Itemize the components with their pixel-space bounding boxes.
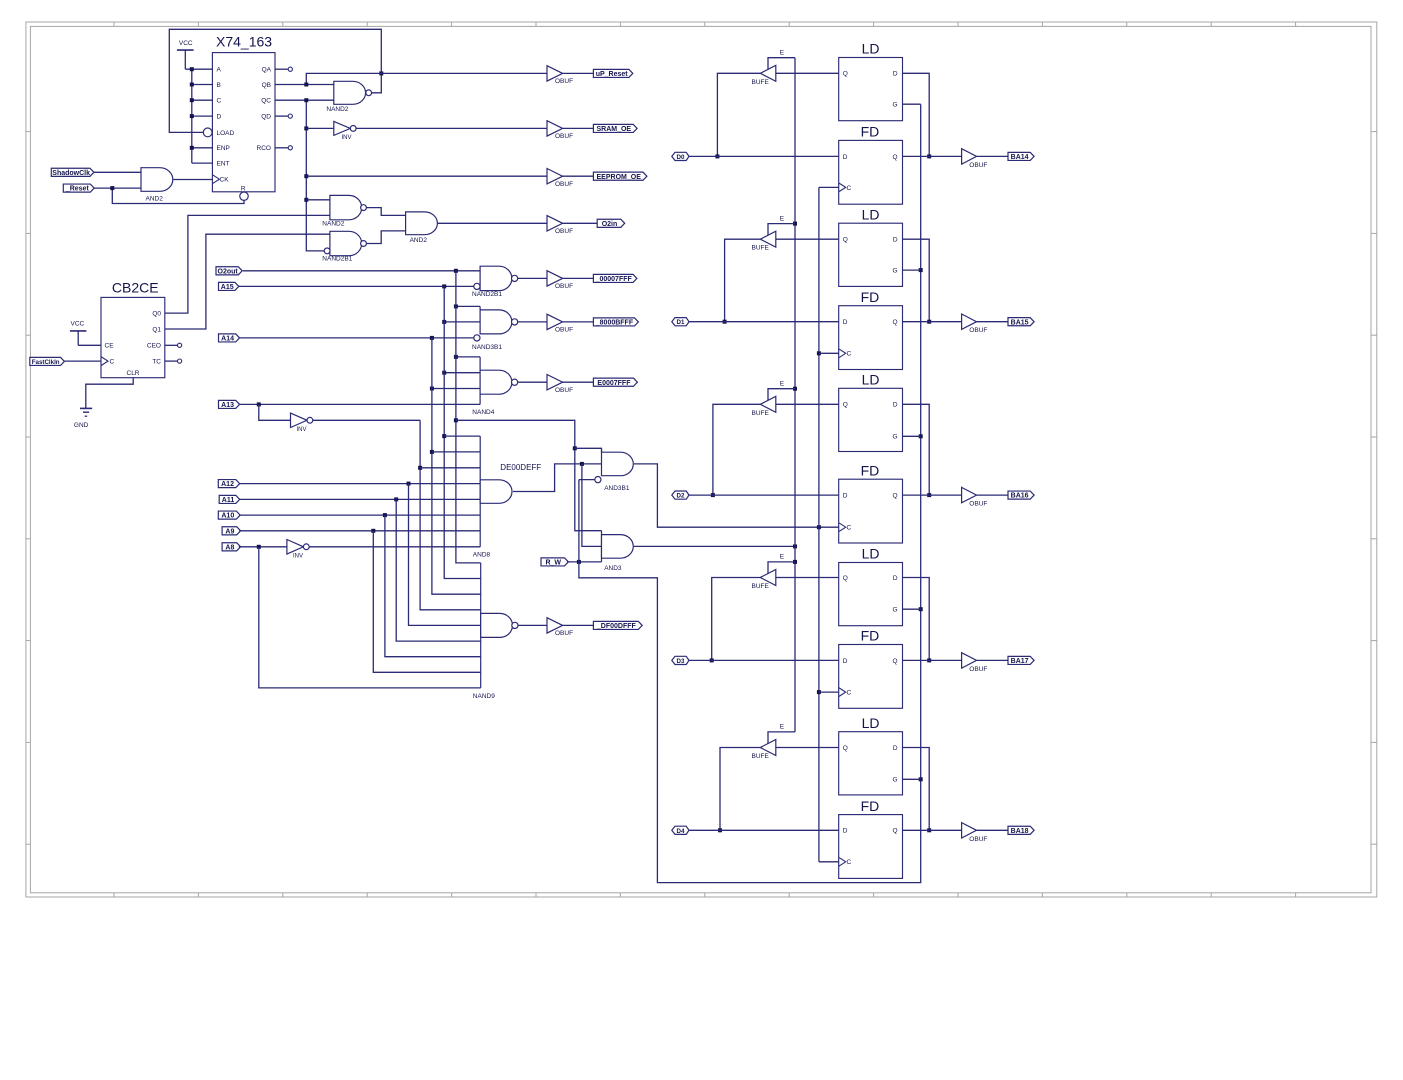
wire R_W to AND3B1 bubble input xyxy=(579,479,595,481)
junction dot BUFE 1 output xyxy=(715,154,719,158)
svg-text:Q: Q xyxy=(893,828,898,835)
OBUF uP_Reset xyxy=(547,66,563,81)
X74_163 counter block U1 xyxy=(212,53,275,192)
wire A13 to NAND4 input4 xyxy=(240,403,481,405)
NAND4 gate address decode xyxy=(480,357,518,405)
svg-text:QC: QC xyxy=(261,98,271,105)
LD latch 2 pin labels xyxy=(843,237,898,275)
junction dot Reset branch xyxy=(110,186,114,190)
svg-text:FD: FD xyxy=(861,798,880,814)
svg-text:uP_Reset: uP_Reset xyxy=(596,71,629,78)
wire D0 to FD1 D xyxy=(689,155,839,157)
input bus vertical A-B-C-D-ENP-ENT xyxy=(191,69,193,163)
wire O2out bus to NAND4 input1 xyxy=(456,356,480,358)
svg-text:NAND3B1: NAND3B1 xyxy=(472,344,502,351)
svg-text:X74_163: X74_163 xyxy=(216,34,272,50)
BUFE enable vertical chain xyxy=(794,58,796,732)
junction dot A13 branch xyxy=(257,402,261,406)
junction dot O2out to AND3B1 input1 xyxy=(573,446,577,450)
svg-text:AND3: AND3 xyxy=(604,565,622,572)
wire LD5 D feedback xyxy=(903,748,930,831)
input flag _Reset xyxy=(63,184,94,192)
input flag D1 xyxy=(672,318,689,326)
svg-text:A15: A15 xyxy=(221,284,234,291)
output flag uP_Reset xyxy=(593,69,632,77)
svg-text:OBUF: OBUF xyxy=(969,666,987,673)
wire LD4 D feedback xyxy=(903,578,930,661)
svg-text:D: D xyxy=(217,114,222,121)
output flag _DF00DFFF xyxy=(593,621,642,629)
wire A8 bus to NAND9 input9 xyxy=(259,547,481,688)
svg-text:BUFE: BUFE xyxy=(752,410,770,417)
junction dot A12 branch xyxy=(407,482,411,486)
junction dot LD1 D feedback xyxy=(927,154,931,158)
wire LD1 Q to BUFE xyxy=(776,72,839,74)
junction dot BUFE 4 output xyxy=(710,658,714,662)
AND3 gate xyxy=(602,531,634,562)
CB2CE pin labels xyxy=(105,311,162,378)
wire A11 bus to NAND9 input6 xyxy=(396,499,481,641)
input flag A10 xyxy=(218,511,240,519)
junction dots enable chain xyxy=(793,222,797,564)
svg-text:E: E xyxy=(780,724,785,731)
NAND9 gate xyxy=(481,563,518,688)
sheet frame inner border xyxy=(30,26,1371,892)
CB2CE counter block U2 xyxy=(101,297,165,377)
svg-text:D: D xyxy=(893,402,898,409)
svg-text:BA14: BA14 xyxy=(1011,154,1029,161)
wire BUFE 4 output to D3 row xyxy=(712,578,761,661)
input flag A9 xyxy=(222,527,241,535)
junction dot LD5 D feedback xyxy=(927,828,931,832)
wire QB to NAND2 xyxy=(275,84,334,86)
wire A14 bus to AND8 input2 xyxy=(432,451,480,453)
FD 3 pin labels xyxy=(843,493,898,532)
wire LD2 G to gate chain xyxy=(903,269,921,271)
LD latch block 2 xyxy=(839,223,903,286)
svg-text:Q: Q xyxy=(893,493,898,500)
svg-text:OBUF: OBUF xyxy=(555,133,573,140)
junction dots on input bus xyxy=(190,67,194,150)
wire INV to OBUF SRAM_OE xyxy=(356,127,547,129)
wire clock chain to FD5 C xyxy=(819,861,839,863)
wire LD4 Q to BUFE xyxy=(776,577,839,579)
wire O2out branch to AND3B1 and AND3 xyxy=(456,420,602,530)
svg-text:Q: Q xyxy=(843,71,848,78)
unconnected pin QD xyxy=(275,114,292,118)
svg-text:ENT: ENT xyxy=(217,161,230,168)
AND3B1 gate xyxy=(595,452,633,483)
svg-text:NAND2: NAND2 xyxy=(322,221,344,228)
BUFE 5 enable pin xyxy=(768,732,795,744)
wire AND8 out branch to AND3 input2 xyxy=(582,464,602,547)
junction dot clock chain xyxy=(817,525,821,529)
svg-text:D: D xyxy=(843,493,848,500)
svg-text:OBUF: OBUF xyxy=(555,630,573,637)
svg-text:D: D xyxy=(843,319,848,326)
svg-text:BA17: BA17 xyxy=(1011,658,1029,665)
svg-text:AND2: AND2 xyxy=(146,195,164,202)
output flag E0007FFF xyxy=(593,378,637,386)
svg-text:INV: INV xyxy=(342,135,352,141)
svg-text:FastClkIn: FastClkIn xyxy=(32,359,60,366)
pin stubs B C D ENP ENT xyxy=(192,85,213,164)
svg-text:O2out: O2out xyxy=(218,268,239,275)
svg-text:NAND9: NAND9 xyxy=(473,693,495,700)
svg-text:Q: Q xyxy=(843,575,848,582)
junction dot LD3 D feedback xyxy=(927,493,931,497)
BUFE tristate buffer 4 xyxy=(760,570,776,586)
unconnected pin TC xyxy=(165,359,182,363)
svg-text:C: C xyxy=(847,351,852,358)
NAND2 gate middle xyxy=(330,195,362,219)
svg-text:OBUF: OBUF xyxy=(555,228,573,235)
svg-text:Q: Q xyxy=(893,154,898,161)
svg-text:AND2: AND2 xyxy=(410,237,428,244)
svg-text:LD: LD xyxy=(862,372,880,388)
svg-text:D3: D3 xyxy=(677,658,685,665)
svg-text:OBUF: OBUF xyxy=(555,327,573,334)
input flag A11 xyxy=(219,495,240,503)
wire AND2 output to CK xyxy=(173,179,212,181)
BUFE 4 enable pin xyxy=(768,562,795,574)
wire NAND2B1 to OBUF xyxy=(518,277,547,279)
LD latch block 3 xyxy=(839,388,903,451)
LD latch block 5 xyxy=(839,732,903,795)
wire OBUF to _8000BFFF flag xyxy=(563,321,594,323)
FD 2 pin labels xyxy=(843,319,898,358)
OBUF E0007FFF xyxy=(547,375,563,390)
wire O2out to NAND2B1 xyxy=(243,270,480,272)
output flag SRAM_OE xyxy=(593,124,637,132)
svg-text:G: G xyxy=(893,268,898,275)
wire QC bus to OBUF EEPROM_OE xyxy=(306,175,547,177)
wire OBUF to BA17 flag xyxy=(977,659,1009,661)
svg-text:C: C xyxy=(847,525,852,532)
output flag O2in xyxy=(597,219,625,227)
OBUF BA16 xyxy=(962,487,977,502)
wire AND3 output to BUFE enable chain xyxy=(634,545,795,547)
wire R_W to AND3 input3 xyxy=(567,561,602,563)
BUFE tristate buffer 1 xyxy=(760,65,776,81)
GND ground symbol xyxy=(74,408,92,429)
svg-text:Q0: Q0 xyxy=(152,311,161,318)
wire D1 to FD2 D xyxy=(689,321,839,323)
svg-text:G: G xyxy=(893,607,898,614)
wire OBUF to O2in flag xyxy=(563,222,598,224)
input flag D2 xyxy=(672,491,689,499)
QC vertical bus xyxy=(306,100,324,251)
wire A8 to INV xyxy=(239,546,287,548)
input flag A13 xyxy=(219,400,240,408)
svg-text:ShadowClk: ShadowClk xyxy=(52,170,90,177)
wire QB riser to uP_Reset buffer xyxy=(306,73,547,84)
wire QC bus to NAND2 middle input1 xyxy=(306,199,330,201)
wire FD5 Q to OBUF xyxy=(903,829,962,831)
svg-text:CLR: CLR xyxy=(127,370,140,377)
wire A9 to AND8 input7 xyxy=(239,530,480,532)
FD 3 clock wedge xyxy=(839,523,846,532)
input flag A8 xyxy=(222,543,241,551)
wire NAND3B1 to OBUF xyxy=(518,321,547,323)
svg-text:OBUF: OBUF xyxy=(969,836,987,843)
AND8 gate xyxy=(480,436,512,547)
wire D4 to FD5 D xyxy=(689,829,839,831)
NAND2B1 gate address decode xyxy=(480,266,512,290)
wire LD3 Q to BUFE xyxy=(776,403,839,405)
svg-text:C: C xyxy=(110,359,115,366)
svg-text:QB: QB xyxy=(262,82,271,89)
wire LD2 Q to BUFE xyxy=(776,238,839,240)
wire LD5 Q to BUFE xyxy=(776,747,839,749)
wire A9 bus to NAND9 input8 xyxy=(373,531,480,673)
svg-text:BA18: BA18 xyxy=(1011,828,1029,835)
svg-text:R: R xyxy=(241,185,246,192)
svg-text:TC: TC xyxy=(152,359,161,366)
FD flip-flop block 3 xyxy=(839,479,903,543)
wire A11 to AND8 input5 xyxy=(240,498,481,500)
output flag BA14 xyxy=(1008,152,1034,160)
svg-text:BUFE: BUFE xyxy=(752,79,770,86)
junction dot A10 branch xyxy=(383,513,387,517)
wire NAND2 middle output to AND2 xyxy=(366,208,405,216)
svg-text:D: D xyxy=(843,658,848,665)
BUFE tristate buffer 3 xyxy=(760,396,776,412)
junction dot A14 bus start xyxy=(430,336,434,340)
wire NAND4 to OBUF xyxy=(518,381,547,383)
NAND2B1 gate middle xyxy=(330,231,362,255)
wire AND2 to OBUF O2in xyxy=(437,222,547,224)
wire FD4 Q to OBUF xyxy=(903,659,962,661)
svg-text:GND: GND xyxy=(74,422,89,429)
INV gate A13 xyxy=(291,413,308,427)
svg-text:SRAM_OE: SRAM_OE xyxy=(596,126,631,133)
wire LD5 G to gate chain xyxy=(903,778,921,780)
BUFE tristate buffer 5 xyxy=(760,740,776,756)
OBUF SRAM_OE xyxy=(547,121,563,136)
input flag ShadowClk xyxy=(51,168,94,176)
svg-text:Q: Q xyxy=(843,402,848,409)
svg-text:LD: LD xyxy=(862,206,880,222)
X74_163 pin labels left xyxy=(217,67,235,184)
svg-text:NAND4: NAND4 xyxy=(472,409,494,416)
wire A10 to AND8 input6 xyxy=(239,514,480,516)
junction dot R_W branch xyxy=(577,560,581,564)
svg-text:G: G xyxy=(893,434,898,441)
svg-text:OBUF: OBUF xyxy=(969,501,987,508)
input flag R_W xyxy=(541,558,568,566)
wire OBUF to EEPROM_OE flag xyxy=(563,175,594,177)
X74_163 CK clock wedge xyxy=(212,175,219,184)
junction dot BUFE 2 output xyxy=(723,320,727,324)
input flag D4 xyxy=(672,826,689,834)
wire clock chain to FD2 C xyxy=(819,352,839,354)
junction dot inverted A13 to AND8 xyxy=(418,466,422,470)
wire LD3 D feedback xyxy=(903,404,930,495)
svg-text:C: C xyxy=(847,690,852,697)
svg-text:CB2CE: CB2CE xyxy=(112,280,159,296)
svg-text:A11: A11 xyxy=(222,497,235,504)
svg-text:RCO: RCO xyxy=(257,145,271,152)
svg-text:D: D xyxy=(893,237,898,244)
svg-text:_00007FFF: _00007FFF xyxy=(595,276,633,283)
A15 vertical bus xyxy=(444,286,481,578)
svg-text:BUFE: BUFE xyxy=(752,245,770,252)
wire NAND2B1 middle output to AND2 xyxy=(366,231,405,244)
frame zone ticks top and bottom xyxy=(114,22,1296,897)
wire A15 bus to AND8 input1 xyxy=(444,435,480,437)
wire clock chain to FD1 C xyxy=(819,186,839,188)
LD latch 1 pin labels xyxy=(843,71,898,109)
svg-text:DE00DEFF: DE00DEFF xyxy=(500,463,541,472)
LD latch block 1 xyxy=(839,58,903,121)
VCC power symbol for X74_163 xyxy=(177,40,194,69)
CB2CE C clock wedge xyxy=(101,357,108,366)
svg-text:A14: A14 xyxy=(221,336,234,343)
X74_163 pin labels right xyxy=(257,67,272,153)
svg-text:E: E xyxy=(780,215,785,222)
LD latch 5 pin labels xyxy=(843,745,898,784)
LD latch 4 pin labels xyxy=(843,575,898,614)
wire D2 to FD3 D xyxy=(689,494,839,496)
wire BUFE 3 output to D2 row xyxy=(713,404,760,495)
wire Q1 to NAND2B1 middle input1 xyxy=(165,234,330,329)
wire A14 bus to NAND4 input3 xyxy=(432,388,480,390)
svg-text:E: E xyxy=(780,380,785,387)
wire CLR to GND xyxy=(86,378,133,409)
junction dot O2out branch row xyxy=(454,418,458,422)
svg-text:D0: D0 xyxy=(677,154,685,161)
svg-text:LD: LD xyxy=(862,41,880,57)
wire FD1 Q to OBUF xyxy=(903,155,962,157)
output flag BA18 xyxy=(1008,826,1034,834)
svg-text:Q: Q xyxy=(893,658,898,665)
wire clock chain to FD4 C xyxy=(819,691,839,693)
svg-text:EEPROM_OE: EEPROM_OE xyxy=(597,174,642,181)
svg-text:BUFE: BUFE xyxy=(752,583,770,590)
wire AND8 output to AND3B1 input2 xyxy=(513,464,602,492)
NAND2 gate top xyxy=(334,81,366,104)
svg-text:QD: QD xyxy=(261,114,271,121)
input flag FastClkIn xyxy=(30,357,65,365)
svg-text:A9: A9 xyxy=(225,528,234,535)
output flag BA15 xyxy=(1008,318,1034,326)
wire BUFE 1 output to D0 row xyxy=(717,73,760,156)
svg-text:D: D xyxy=(843,828,848,835)
svg-text:D: D xyxy=(893,71,898,78)
X74_163 R pin bubble xyxy=(240,192,248,200)
svg-text:C: C xyxy=(217,98,222,105)
output flag BA16 xyxy=(1008,491,1034,499)
FD flip-flop block 5 xyxy=(839,815,903,879)
svg-text:NAND2B1: NAND2B1 xyxy=(472,291,502,298)
junction dot LD4 D feedback xyxy=(927,658,931,662)
svg-text:BA16: BA16 xyxy=(1011,493,1029,500)
svg-text:A: A xyxy=(217,67,222,74)
svg-text:E: E xyxy=(780,554,785,561)
wire R_W to latch gate chain xyxy=(579,104,921,882)
svg-text:FD: FD xyxy=(861,462,880,478)
wire BUFE 5 output to D4 row xyxy=(720,748,760,831)
A14 vertical bus xyxy=(432,338,481,594)
svg-text:BUFE: BUFE xyxy=(752,753,770,760)
frame zone ticks left and right xyxy=(26,132,1377,845)
junction dot LD2 D feedback xyxy=(927,320,931,324)
NAND2B1 middle input bubble xyxy=(324,248,330,254)
svg-text:CEO: CEO xyxy=(147,343,161,350)
output flag _8000BFFF xyxy=(593,318,638,326)
AND2 gate O2in xyxy=(406,212,438,235)
wire NAND9 to OBUF xyxy=(518,624,547,626)
svg-text:LOAD: LOAD xyxy=(217,130,235,137)
wire NAND2 output loop to LOAD xyxy=(169,29,381,132)
svg-text:LD: LD xyxy=(862,715,880,731)
wire LD4 G to gate chain xyxy=(903,608,921,610)
wire _Reset to AND2 xyxy=(94,187,141,189)
svg-text:C: C xyxy=(847,859,852,866)
junction dot BUFE 5 output xyxy=(718,828,722,832)
svg-text:NAND2: NAND2 xyxy=(326,106,348,113)
svg-text:OBUF: OBUF xyxy=(969,327,987,334)
wire OBUF to uP_Reset flag xyxy=(563,72,594,74)
wire QC bus to INV xyxy=(306,127,334,129)
unconnected pin CEO xyxy=(165,343,182,347)
svg-text:D2: D2 xyxy=(677,493,685,500)
wire QC to NAND2 xyxy=(275,99,334,101)
output flag BA17 xyxy=(1008,656,1034,664)
wire A15 bus to NAND3B1 input2 xyxy=(444,321,480,323)
wire INV A8 to AND8 input8 xyxy=(309,546,480,548)
FD 1 clock wedge xyxy=(839,183,846,192)
svg-text:G: G xyxy=(893,102,898,109)
inverted A13 vertical bus xyxy=(420,420,481,610)
wire A15 to NAND2B1 bubble xyxy=(239,285,474,287)
unconnected pin RCO xyxy=(275,146,292,150)
wire VCC to pin A xyxy=(185,68,212,70)
svg-text:FD: FD xyxy=(861,628,880,644)
svg-text:OBUF: OBUF xyxy=(969,162,987,169)
OBUF O2in xyxy=(547,216,563,231)
BUFE tristate buffer 2 xyxy=(760,231,776,247)
INV gate SRAM_OE xyxy=(334,121,351,135)
svg-text:AND3B1: AND3B1 xyxy=(604,485,630,492)
BUFE 3 enable pin xyxy=(768,389,795,401)
wire OBUF to BA18 flag xyxy=(977,829,1009,831)
junction dots clock chain verticals xyxy=(817,351,821,694)
svg-text:A13: A13 xyxy=(221,402,234,409)
svg-text:Q: Q xyxy=(843,237,848,244)
svg-text:INV: INV xyxy=(297,427,307,433)
junction dot NAND2 output at uP_Reset row xyxy=(379,71,383,75)
wire OBUF to SRAM_OE flag xyxy=(563,127,594,129)
wire OBUF to E0007FFF flag xyxy=(563,381,594,383)
output flag _00007FFF xyxy=(593,274,637,282)
svg-text:VCC: VCC xyxy=(71,321,85,328)
svg-text:A12: A12 xyxy=(221,481,234,488)
svg-text:E0007FFF: E0007FFF xyxy=(597,380,631,387)
FD 4 clock wedge xyxy=(839,688,846,697)
svg-text:R_W: R_W xyxy=(545,560,561,567)
OBUF BA14 xyxy=(962,149,977,164)
svg-text:D: D xyxy=(893,575,898,582)
input flag O2out xyxy=(216,267,242,275)
LD latch block 4 xyxy=(839,563,903,626)
svg-text:NAND2B1: NAND2B1 xyxy=(322,256,352,263)
wire A15 bus to NAND4 input2 xyxy=(444,372,480,374)
wire A13 to INV xyxy=(259,404,291,420)
wire O2out branch to AND3B1 input1 xyxy=(575,448,602,452)
FD flip-flop block 2 xyxy=(839,306,903,370)
